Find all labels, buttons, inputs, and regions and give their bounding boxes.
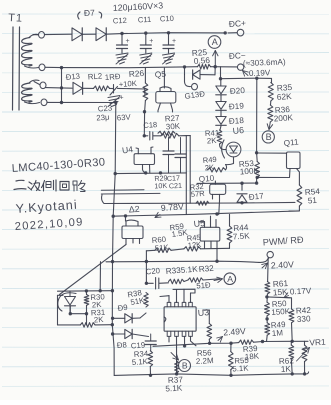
junction top rail C10 bbox=[167, 31, 170, 34]
resistor R39 bbox=[239, 340, 254, 344]
T1 lower winding bottom lead bbox=[25, 102, 40, 104]
wire R32 to A bbox=[203, 279, 220, 280]
wire D19-D18 bbox=[220, 111, 222, 117]
svg-text:2.49V: 2.49V bbox=[223, 326, 246, 338]
junction y261 x146 bbox=[145, 260, 148, 263]
svg-text:Đ19: Đ19 bbox=[229, 101, 245, 111]
junction y173 b bbox=[159, 171, 162, 174]
wire DC- rail drop x220 bbox=[220, 67, 222, 79]
junction rail y203 x242 bbox=[240, 201, 243, 204]
ground for C12 bbox=[116, 53, 128, 55]
svg-text:51: 51 bbox=[308, 196, 318, 206]
junction y374 c bbox=[291, 372, 294, 375]
wire x257 down bbox=[256, 78, 258, 153]
resistor R31 zigzag bbox=[80, 323, 95, 328]
wire U3 top bus bbox=[160, 289, 195, 296]
svg-text:15K: 15K bbox=[272, 286, 288, 297]
svg-text:C21: C21 bbox=[169, 181, 183, 191]
label 9.78V with arrow bbox=[155, 215, 160, 218]
svg-text:T1: T1 bbox=[8, 12, 23, 25]
junction y374 d bbox=[303, 372, 306, 375]
ground for C11 bbox=[140, 53, 152, 55]
svg-text:2.40V: 2.40V bbox=[271, 259, 295, 270]
wire row3 bbox=[46, 87, 72, 90]
wire D13-RL2 bbox=[83, 87, 94, 89]
wire y183 Q10 to R53 bbox=[197, 182, 257, 184]
test point B circle bbox=[262, 131, 274, 143]
led D symbol bbox=[69, 291, 71, 296]
test point B2 circle bbox=[179, 360, 191, 372]
junction bus y173 bbox=[114, 172, 117, 175]
svg-text:B: B bbox=[266, 132, 272, 142]
svg-text:B: B bbox=[182, 361, 188, 371]
junction R53 bottom bbox=[256, 176, 259, 179]
vertical x146 bbox=[145, 251, 147, 283]
arrow into B2 bbox=[171, 353, 179, 361]
wire Q7 to LED diagonal bbox=[60, 245, 127, 295]
test point A2 circle bbox=[224, 273, 236, 285]
capacitor C17 bbox=[168, 138, 170, 151]
vertical left x57 bbox=[57, 295, 59, 325]
junction top rail C12 bbox=[120, 32, 123, 35]
wire R25 left stub bbox=[185, 66, 198, 68]
optocoupler U6 LED bbox=[226, 142, 241, 157]
svg-text:U6: U6 bbox=[232, 125, 244, 136]
vertical x100 down bbox=[99, 262, 101, 291]
svg-text:+: + bbox=[120, 95, 124, 102]
resistor R54 bbox=[297, 185, 302, 206]
resistor R30 bbox=[84, 295, 89, 306]
diode D18 bbox=[216, 117, 226, 125]
ic U4 body bbox=[134, 154, 154, 165]
resistor R25 bbox=[198, 64, 211, 69]
wire Q7 top pin bbox=[125, 216, 127, 221]
svg-text:R26: R26 bbox=[128, 68, 144, 79]
diode D13 bbox=[73, 82, 83, 94]
capacitor C11 bbox=[145, 34, 147, 45]
wire R42 to rail bbox=[291, 323, 294, 342]
wire Q11 leg right bbox=[297, 169, 300, 186]
T1 upper winding bbox=[22, 38, 33, 67]
wire R34 bottom bbox=[149, 367, 151, 376]
junction led bottom bbox=[69, 312, 72, 315]
svg-text:200K: 200K bbox=[274, 113, 294, 123]
svg-text:2K: 2K bbox=[207, 136, 218, 146]
arrow into A2 node bbox=[214, 279, 223, 281]
resistor R56 bbox=[207, 324, 212, 340]
junction y374 a bbox=[175, 372, 178, 375]
wire R49 to rail bbox=[266, 335, 269, 341]
svg-text:23μ: 23μ bbox=[96, 113, 110, 123]
ic U3 body bbox=[164, 307, 196, 331]
svg-text:R32: R32 bbox=[198, 264, 214, 274]
svg-text:62K: 62K bbox=[276, 91, 292, 102]
capacitor C12 bbox=[121, 34, 123, 45]
T1 terminal 4 bbox=[41, 99, 47, 106]
svg-text:5.1K: 5.1K bbox=[165, 384, 183, 394]
wire to G13 terminal bbox=[185, 75, 191, 87]
svg-text:RL2: RL2 bbox=[88, 72, 103, 82]
svg-text:U3: U3 bbox=[197, 307, 209, 318]
wire R41 to U6 bbox=[220, 144, 227, 150]
svg-text:10K: 10K bbox=[154, 181, 167, 191]
resistor R34 bbox=[148, 351, 153, 367]
svg-text:51Đ: 51Đ bbox=[196, 280, 211, 290]
wire R42 branch bbox=[267, 297, 292, 309]
svg-text:5.1K: 5.1K bbox=[232, 364, 249, 374]
junction y374 b bbox=[229, 374, 232, 377]
wire R61-R50 bbox=[266, 294, 268, 302]
ground for C10 bbox=[163, 53, 175, 55]
svg-text:0.17V: 0.17V bbox=[290, 286, 312, 296]
label 0.19V with arrow bbox=[243, 71, 249, 76]
wire rail y342 right bbox=[254, 340, 309, 343]
resistor R38 zigzag bbox=[144, 293, 148, 308]
svg-text:C20: C20 bbox=[145, 266, 161, 277]
svg-text:(≈303.6mA): (≈303.6mA) bbox=[243, 58, 286, 68]
terminal DC- bbox=[237, 64, 243, 70]
label 2.40V with arrow bbox=[262, 263, 268, 268]
U5 bottom pins bbox=[205, 241, 218, 261]
junction y342 d bbox=[291, 340, 294, 343]
wire top rail to DC+ bbox=[106, 33, 225, 35]
svg-text:Đ13: Đ13 bbox=[65, 72, 80, 82]
wire top y291 bbox=[58, 290, 113, 293]
T1 lower winding top lead bbox=[34, 82, 40, 85]
capacitor C10 bbox=[168, 34, 170, 45]
resistor R32b zigzag bbox=[188, 278, 203, 282]
svg-text:7.5K: 7.5K bbox=[233, 231, 251, 241]
svg-text:C10: C10 bbox=[160, 14, 174, 24]
junction top rail C11 bbox=[144, 31, 147, 34]
wire to PWM terminal bbox=[259, 258, 269, 263]
junction R25 right bbox=[214, 65, 217, 68]
svg-text:Δ2: Δ2 bbox=[128, 204, 140, 215]
diode D7a bbox=[72, 28, 82, 41]
wire R30 bottom bbox=[86, 305, 88, 313]
led D bracket bbox=[58, 293, 76, 311]
junction y78 left bbox=[219, 77, 222, 80]
diode D8 bbox=[113, 333, 125, 335]
terminal DC+ bbox=[237, 29, 244, 36]
capacitor C18 bbox=[144, 132, 161, 141]
label 0.17V with arrow bbox=[284, 296, 289, 298]
svg-text:R33: R33 bbox=[165, 266, 181, 276]
resistor R40 horizontal bbox=[208, 168, 226, 172]
transistor Q10 body bbox=[210, 184, 226, 194]
svg-text:Đ8: Đ8 bbox=[117, 340, 128, 350]
svg-text:330: 330 bbox=[297, 314, 312, 324]
svg-text:C18: C18 bbox=[143, 120, 158, 130]
U4 top pins bbox=[136, 147, 153, 154]
terminal PWM/RD bbox=[267, 251, 273, 257]
wire to DC+ terminal bbox=[228, 32, 237, 34]
capacitor C19 bbox=[150, 334, 152, 341]
wire rail y374 bbox=[114, 372, 308, 376]
wire R25 to DC- terminal bbox=[211, 66, 238, 68]
svg-text:C11: C11 bbox=[138, 15, 152, 25]
main bus x113 bbox=[112, 103, 116, 376]
svg-text:Q11: Q11 bbox=[283, 137, 299, 148]
wire R31 to bus bbox=[95, 324, 112, 326]
svg-text:63V: 63V bbox=[117, 112, 132, 122]
svg-text:Đ7: Đ7 bbox=[84, 8, 95, 18]
wire R62 bottom bbox=[290, 359, 293, 374]
test point A circle bbox=[208, 36, 221, 49]
junction rail y215 x125 bbox=[124, 214, 127, 217]
svg-text:5.1K: 5.1K bbox=[180, 265, 198, 275]
junction top rail DC+ bbox=[224, 31, 227, 34]
wire rail y203 bbox=[102, 195, 295, 204]
svg-text:150K: 150K bbox=[271, 307, 291, 317]
U4 bottom pins bbox=[143, 165, 150, 173]
resistor R33 zigzag bbox=[169, 279, 185, 284]
svg-text:VR1: VR1 bbox=[309, 337, 326, 348]
diode D7b bbox=[96, 28, 106, 41]
svg-text:30K: 30K bbox=[166, 121, 181, 131]
svg-text:Đ17: Đ17 bbox=[248, 191, 264, 202]
svg-text:0.56: 0.56 bbox=[193, 55, 210, 66]
transistor Q7 body bbox=[122, 226, 143, 239]
wire R27 right bbox=[179, 136, 187, 215]
wire R35-R36 bbox=[270, 101, 272, 105]
ruled paper lines bbox=[2, 13, 329, 15]
trimmer 10K bbox=[110, 87, 114, 89]
junction y342 c bbox=[261, 340, 264, 343]
resistor R55 bbox=[229, 352, 234, 370]
junction y342 b bbox=[229, 342, 232, 345]
junction rail y215 x217 bbox=[215, 212, 218, 215]
svg-text:9.78V: 9.78V bbox=[160, 201, 184, 213]
wire between D7 diodes bbox=[83, 33, 96, 35]
wire PWM down bbox=[267, 258, 270, 282]
svg-text:100K: 100K bbox=[240, 166, 260, 176]
junction R53 top bbox=[255, 151, 258, 154]
arrow R36 to B bbox=[269, 122, 270, 130]
diode D17 bbox=[241, 183, 243, 190]
U5 top pins bbox=[199, 216, 216, 227]
diode G13D bbox=[184, 67, 186, 75]
wire y324 left bbox=[58, 324, 81, 326]
junction y291 a bbox=[85, 289, 88, 292]
resistor R61 bbox=[265, 282, 270, 294]
wire rail y261 bbox=[106, 261, 259, 262]
resistor R62 bbox=[289, 345, 294, 359]
resistor R28 zigzag bbox=[158, 131, 175, 135]
junction y173 a bbox=[144, 171, 147, 174]
svg-text:+10K: +10K bbox=[119, 79, 138, 89]
wire row3 to R26 bbox=[118, 87, 145, 90]
wire Q5 top pin bbox=[163, 68, 165, 88]
resistor R45 zigzag bbox=[184, 247, 201, 251]
junction y291 b bbox=[99, 289, 102, 292]
resistor R41 bbox=[217, 130, 222, 144]
wire R56 top bbox=[208, 310, 210, 324]
wire rail y78 to R35 bbox=[257, 78, 272, 82]
wire T1 terminal1 to D7 bbox=[45, 33, 72, 35]
svg-text:+: + bbox=[149, 38, 153, 45]
wire R27 bridge bbox=[186, 135, 190, 137]
wire R60-R45 row bbox=[171, 249, 184, 251]
wire rail y78 bbox=[221, 77, 257, 80]
resistor R53 bbox=[255, 162, 260, 178]
transformer T1 core bbox=[12, 27, 15, 110]
U3 top pin wires bbox=[169, 289, 191, 302]
svg-text:+: + bbox=[126, 38, 130, 45]
ic U5 body bbox=[200, 227, 220, 241]
capacitor C20 bbox=[146, 278, 168, 290]
svg-text:U4: U4 bbox=[121, 144, 133, 155]
wire R50-R49 bbox=[266, 316, 268, 323]
resistor R60 zigzag bbox=[155, 248, 171, 252]
resistor R37 on x176 bbox=[175, 361, 179, 373]
svg-text:ĐC+: ĐC+ bbox=[228, 18, 246, 29]
transistor Q5 body bbox=[156, 92, 176, 104]
wire VR1 bottom bbox=[304, 362, 306, 374]
U3 bottom pin wires bbox=[169, 336, 196, 374]
junction bus y261 bbox=[111, 260, 114, 263]
wire R26 bottom bbox=[144, 101, 147, 112]
T1 terminal 1 bbox=[39, 32, 45, 39]
arrow to test point A bbox=[214, 51, 216, 67]
junction y78 right bbox=[255, 77, 258, 80]
wire y173 bbox=[115, 172, 186, 175]
T1 upper winding top lead bbox=[33, 34, 38, 36]
junction center tap x61 bbox=[60, 66, 63, 69]
title nijigawa kairo (JP) bbox=[16, 179, 24, 182]
wire center tap rail bbox=[45, 66, 184, 69]
resistor R35 bbox=[268, 83, 273, 102]
wire U6 bottom bbox=[226, 157, 234, 165]
svg-text:2.2M: 2.2M bbox=[196, 356, 215, 366]
wire rail y215 bbox=[113, 211, 300, 216]
U3 bottom pins bbox=[167, 331, 192, 336]
svg-text:A: A bbox=[212, 37, 218, 47]
potentiometer VR1 bbox=[302, 345, 307, 362]
svg-text:C12: C12 bbox=[113, 16, 127, 26]
svg-text:Q10: Q10 bbox=[198, 174, 215, 184]
T1 upper winding bottom lead bbox=[25, 66, 39, 68]
wire x190 vertical bbox=[189, 136, 191, 204]
led D left lead bbox=[58, 294, 63, 296]
svg-text:+: + bbox=[172, 38, 176, 45]
junction y342 a bbox=[208, 342, 211, 345]
wire D20-D19 bbox=[220, 95, 222, 101]
T1 terminal 2 (center tap) bbox=[39, 64, 45, 71]
U3 top pins bbox=[167, 302, 192, 306]
resistor R50 bbox=[265, 302, 270, 316]
wire Q11 base bbox=[257, 152, 287, 154]
junction R25 left bbox=[183, 65, 186, 68]
resistor R31b zigzag bbox=[196, 201, 209, 205]
wire Q11 leg left bbox=[257, 169, 290, 178]
svg-text:57R: 57R bbox=[190, 189, 205, 199]
wire R54 bottom bracket bbox=[289, 206, 299, 211]
wire row4 bbox=[47, 101, 116, 103]
wire R30R31 join bbox=[86, 314, 88, 325]
diode D9 bbox=[113, 317, 125, 319]
vertical x61 rows bbox=[61, 68, 63, 103]
resistor R44 bbox=[227, 226, 232, 243]
svg-text:2K: 2K bbox=[94, 315, 105, 325]
svg-text:Đ20: Đ20 bbox=[230, 86, 246, 96]
resistor R27 zigzag bbox=[161, 133, 179, 138]
diode D20 bbox=[220, 79, 222, 86]
svg-text:5.1K: 5.1K bbox=[132, 357, 149, 367]
T1 lower winding bbox=[22, 83, 33, 102]
resistor R42 bbox=[289, 309, 294, 323]
junction bus y291 bbox=[111, 289, 114, 292]
resistor R36 bbox=[268, 105, 273, 122]
wire Q5 legs bbox=[158, 103, 173, 112]
wire rail y342 bbox=[153, 343, 239, 347]
T1 terminal 3 bbox=[40, 82, 46, 89]
resistor R49 bbox=[265, 323, 270, 335]
resistor R26 bbox=[143, 83, 148, 101]
svg-text:1M: 1M bbox=[272, 328, 284, 338]
svg-text:1K: 1K bbox=[281, 364, 292, 374]
wire y190 stub bbox=[101, 189, 144, 192]
junction bus y216 bbox=[112, 215, 115, 218]
resistor RL2 zigzag bbox=[94, 86, 110, 91]
transistor Q11 body bbox=[287, 152, 301, 169]
svg-text:2K: 2K bbox=[204, 163, 214, 173]
junction U3 pin bbox=[183, 344, 186, 347]
junction y324 bus bbox=[111, 323, 114, 326]
capacitor C21 bbox=[180, 138, 182, 154]
svg-text:A: A bbox=[227, 274, 233, 284]
svg-text:0.19V: 0.19V bbox=[249, 68, 271, 78]
label 2.49V with arrow bbox=[218, 337, 223, 341]
svg-text:Đ9: Đ9 bbox=[117, 303, 128, 313]
wire Q7 bottom legs bbox=[126, 239, 140, 245]
terminal G13 bbox=[192, 83, 198, 89]
wire D18 to R41 bbox=[220, 126, 221, 130]
diode D19 bbox=[216, 102, 226, 110]
junction y261 x217 bbox=[215, 260, 218, 263]
junction row3 x61 bbox=[60, 86, 63, 89]
